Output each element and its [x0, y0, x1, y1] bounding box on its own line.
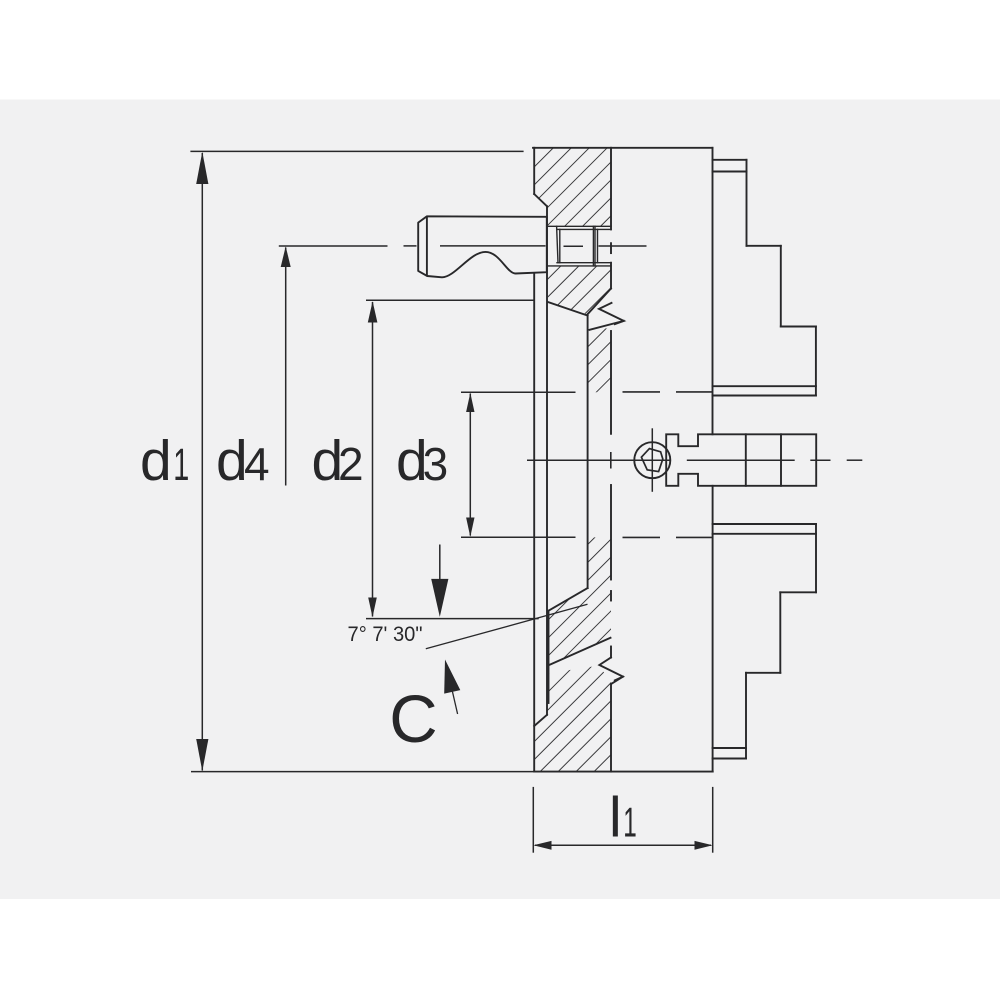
- d3 top arrow: [466, 393, 474, 412]
- top break flash: [590, 303, 624, 330]
- top jaw tab line 2: [713, 171, 747, 173]
- key body: [418, 216, 547, 277]
- d4 top arrow: [281, 246, 291, 267]
- bottom jaw top line 2: [713, 533, 816, 535]
- d2 extension top: [366, 299, 534, 301]
- top break flash sliver: [615, 321, 624, 324]
- top jaw step h2: [781, 326, 816, 328]
- svg-text:3: 3: [423, 438, 449, 490]
- bottom jaw step edge 3: [745, 673, 747, 759]
- C leader shaft: [450, 681, 458, 714]
- top jaw step edge 2: [780, 246, 782, 327]
- d1 dimension line: [201, 153, 203, 771]
- screw head circle: [634, 442, 670, 478]
- socket square end line 2: [594, 226, 596, 266]
- d3 dimension line: [469, 394, 471, 536]
- bottom jaw tab line 1: [713, 747, 746, 749]
- plate chamfer bottom: [534, 715, 547, 726]
- svg-text:C: C: [389, 682, 437, 757]
- d1 extension bottom: [191, 771, 534, 773]
- bottom jaw tab line 2: [713, 758, 746, 760]
- socket left wall: [557, 226, 558, 262]
- d3 extension bottom: [461, 536, 576, 538]
- plate centerline dashes: [610, 452, 612, 469]
- d2 extension bottom / angle baseline: [366, 618, 539, 620]
- l1 extension left: [532, 787, 534, 853]
- hidden hole bottom dashed: [623, 536, 661, 538]
- svg-text:l: l: [609, 785, 622, 849]
- socket pilot line: [597, 229, 599, 262]
- bottom jaw step edge 1: [815, 524, 817, 592]
- svg-text:2: 2: [338, 438, 364, 490]
- boss face line: [546, 206, 548, 715]
- key centerline socket dash: [564, 245, 584, 247]
- hidden hole top dashed: [623, 391, 661, 393]
- big angle arrow: [431, 579, 448, 617]
- screw outline: [666, 434, 816, 486]
- screw divider 1: [745, 434, 747, 486]
- d1 bottom arrow: [196, 739, 208, 771]
- plate right edge below socket: [610, 263, 612, 289]
- d1 extension top: [190, 150, 523, 152]
- plate edge centerline tick: [610, 243, 612, 253]
- d3 bottom arrow: [466, 518, 474, 537]
- svg-text:d: d: [140, 429, 172, 493]
- bottom jaw step edge 2: [779, 592, 781, 673]
- body right edge lower: [712, 486, 714, 772]
- d1 top arrow: [196, 152, 208, 184]
- top jaw tab line 1: [713, 159, 747, 161]
- hatch bottom block of back plate: [534, 666, 611, 772]
- socket bottom line: [547, 265, 611, 267]
- l1 extension right: [712, 787, 714, 853]
- d4 dimension line: [285, 248, 287, 486]
- d2 dimension line: [372, 302, 374, 617]
- hex socket: [641, 449, 662, 472]
- hatch top block of back plate: [534, 148, 611, 227]
- l1 left arrow: [533, 841, 551, 850]
- hatch strip above bore hole: [588, 328, 611, 392]
- angle arrow shaft: [439, 545, 441, 601]
- bottom jaw step h1: [780, 591, 816, 593]
- key centerline main: [440, 245, 546, 247]
- bottom jaw top line 1: [713, 523, 816, 525]
- hatch strip below bore hole down to break: [548, 537, 611, 665]
- hatch below key socket: [547, 266, 611, 315]
- key centerline right: [599, 245, 647, 247]
- top jaw bottom line 1: [713, 385, 816, 387]
- svg-text:4: 4: [244, 438, 270, 490]
- bottom break edge: [548, 638, 611, 666]
- bottom break flash: [599, 658, 623, 684]
- C leader arrow: [444, 660, 460, 694]
- plate left edge lower: [533, 272, 535, 772]
- svg-text:1: 1: [173, 439, 189, 490]
- bore cylinder edge: [587, 316, 589, 588]
- plate right edge mid1: [610, 331, 612, 434]
- body right edge upper: [712, 148, 714, 435]
- socket square end line 1: [592, 226, 594, 266]
- svg-text:1: 1: [623, 798, 637, 845]
- svg-text:d: d: [216, 429, 248, 493]
- plate right edge mid2: [610, 485, 612, 580]
- plate left edge upper: [533, 148, 535, 194]
- key cap divider: [426, 216, 428, 276]
- taper inner edge lower: [548, 611, 550, 703]
- screw divider 2: [780, 434, 782, 486]
- plate right edge bottom: [610, 684, 612, 772]
- bottom break flash sliver: [615, 677, 623, 681]
- d3 extension top: [461, 391, 576, 393]
- top jaw bottom line 2: [713, 395, 816, 397]
- socket top line: [547, 225, 611, 227]
- socket top inner line: [557, 228, 611, 230]
- plate right edge dash: [610, 591, 612, 601]
- bottom jaw step h2: [746, 672, 780, 674]
- top jaw step edge 3: [815, 327, 817, 396]
- bore taper top: [548, 302, 588, 316]
- plate right edge top: [610, 148, 612, 230]
- main centerline: [527, 459, 671, 461]
- angle slanted line: [426, 604, 588, 649]
- svg-text:7° 7' 30": 7° 7' 30": [348, 622, 423, 646]
- d2 top arrow: [368, 301, 378, 322]
- l1 right arrow: [695, 841, 713, 850]
- top jaw step edge 1: [746, 160, 748, 246]
- bore taper bottom: [549, 588, 588, 611]
- top jaw step h1: [747, 245, 781, 247]
- top break edge: [587, 289, 611, 315]
- d2 bottom arrow: [368, 598, 377, 618]
- socket inner left edge: [559, 229, 561, 262]
- socket bottom inner line: [557, 262, 611, 264]
- body bottom edge: [534, 771, 713, 773]
- bottom break stub: [610, 647, 612, 658]
- body top edge: [533, 147, 713, 149]
- gray band: [0, 100, 1000, 900]
- plate chamfer top: [534, 194, 547, 206]
- l1 dimension line: [535, 844, 711, 846]
- d4 extension: [279, 245, 388, 247]
- screw vertical centerline: [651, 428, 653, 492]
- key centerline dash: [404, 245, 417, 247]
